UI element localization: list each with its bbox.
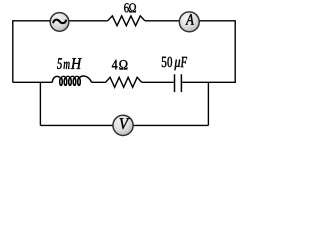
capacitor C=50uF plates [175, 74, 182, 92]
AC source circle [50, 13, 69, 32]
ammeter U=A circle [179, 12, 199, 32]
value label 5mH [57, 58, 82, 69]
wire: bottom voltmeter branch horizontal [40, 124, 208, 126]
wire: left drop from middle branch to voltmeter branch [39, 82, 41, 125]
wire: left vertical of outer loop [12, 20, 14, 82]
wire: right vertical of outer loop [234, 20, 236, 82]
ammeter letter A [186, 14, 194, 24]
resistor R=6 ohm zigzag [108, 16, 145, 26]
voltmeter circle [113, 115, 133, 135]
wire: middle branch horizontal segments [13, 81, 236, 83]
value label 50uF [162, 57, 187, 71]
value label 6 ohm [124, 3, 136, 12]
resistor R=4 ohm zigzag [106, 77, 142, 87]
inductor L=5mH coil [52, 76, 91, 85]
voltmeter letter V [120, 118, 130, 129]
value label 4 ohm [112, 60, 128, 70]
AC source sine wave symbol [53, 20, 66, 23]
wire: top side of outer loop [13, 20, 235, 22]
wire: right drop from middle branch to voltmeter branch [207, 82, 209, 125]
